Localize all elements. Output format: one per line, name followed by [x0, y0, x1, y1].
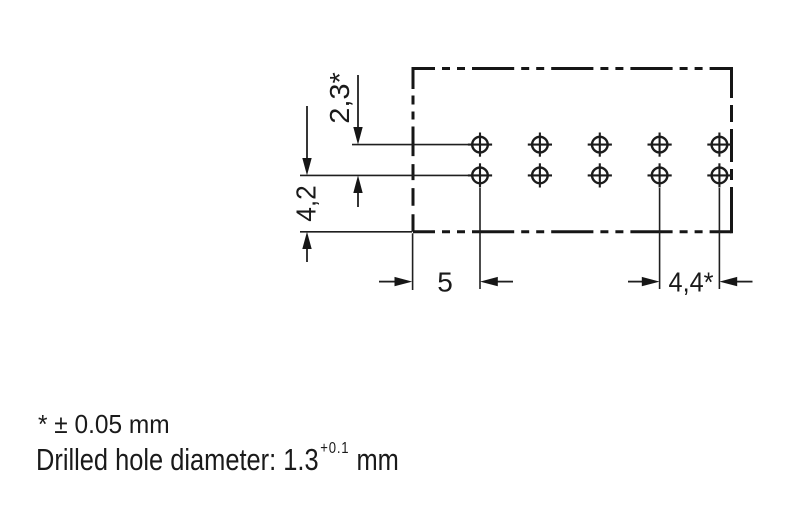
svg-text:2,3*: 2,3* — [324, 72, 355, 124]
housing outline right edge (phantom line) — [730, 67, 733, 233]
extension line column 1 — [479, 188, 481, 289]
drilled hole row2 col4 — [648, 163, 672, 187]
drilled hole row1 col5 — [707, 133, 731, 157]
drilled hole row2 col3 — [588, 163, 612, 187]
extension line column 5 — [718, 188, 720, 289]
dimension 5 right arrow — [480, 277, 513, 286]
drilled hole row1 col4 — [648, 133, 672, 157]
drilled hole row2 col5 — [707, 163, 731, 187]
drilled hole row1 col3 — [588, 133, 612, 157]
svg-text:5: 5 — [437, 266, 453, 297]
extension line row 1 — [352, 144, 470, 146]
dimension 2,3 lower arrow — [353, 175, 362, 207]
dimension 2,3 upper arrow — [353, 75, 362, 145]
extension line housing left corner — [412, 233, 414, 290]
extension line row 2 — [300, 174, 470, 176]
dimension 4,4 left arrow — [628, 277, 660, 286]
housing outline bottom edge (phantom line) — [413, 230, 732, 233]
housing outline top edge (phantom line) — [413, 67, 732, 70]
housing outline left edge (phantom line) — [412, 67, 415, 233]
extension line bottom edge — [300, 231, 412, 233]
dimension 4,2 upper arrow — [302, 106, 311, 175]
tolerance note line 2 — [36, 442, 399, 478]
tolerance note line 1 — [38, 409, 170, 440]
drilled hole row2 col2 — [528, 163, 552, 187]
svg-text:4,4*: 4,4* — [669, 266, 714, 297]
drilled hole row2 col1 — [468, 163, 492, 187]
drilled hole row1 col2 — [528, 133, 552, 157]
drilled hole row1 col1 — [468, 133, 492, 157]
extension line column 4 — [659, 188, 661, 289]
svg-text:4,2: 4,2 — [291, 185, 322, 222]
dimension 4,4 right arrow — [719, 277, 752, 286]
dimension 4,2 lower arrow — [302, 232, 311, 262]
dimension 5 left arrow — [379, 277, 412, 286]
